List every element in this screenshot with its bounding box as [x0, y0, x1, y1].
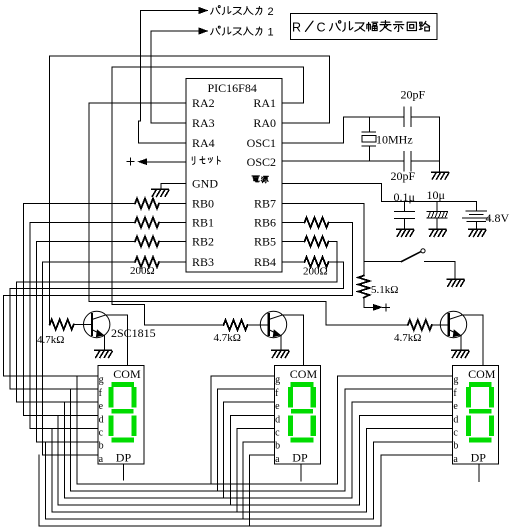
wire RA4 pin — [139, 142, 187, 144]
svg-text:DP: DP — [292, 451, 308, 465]
ground at GND pin — [152, 189, 169, 196]
resistor R4 200ohm RB3 — [135, 257, 159, 267]
svg-text:RB0: RB0 — [192, 197, 214, 211]
arrow pulse input 2 — [199, 7, 209, 14]
display DS2 7-segment — [274, 365, 320, 464]
svg-text:4.7kΩ: 4.7kΩ — [394, 332, 421, 344]
wire RA2 pin to left — [89, 102, 186, 104]
svg-text:RB7: RB7 — [254, 197, 276, 211]
wire RB3 vertical down to display pin — [42, 262, 44, 455]
wire 5.1k to plus marker — [364, 298, 374, 308]
crystal X1 10MHz — [369, 117, 371, 132]
wire band3 RB6 to display1 pin g — [4, 296, 353, 376]
title box R/C pulse width display circuit — [291, 14, 438, 40]
svg-text:GND: GND — [192, 177, 218, 191]
svg-text:200Ω: 200Ω — [130, 265, 155, 277]
svg-text:a: a — [453, 454, 458, 465]
wire bus6 to display3 pin b — [374, 442, 453, 519]
switch SW1 blade — [402, 252, 421, 262]
wire bus3 to display2 pin e — [224, 402, 275, 498]
wire RB7 to 5.1k and switch — [282, 204, 364, 276]
svg-text:DP: DP — [116, 451, 132, 465]
svg-text:4.7kΩ: 4.7kΩ — [37, 334, 64, 346]
wire RB1 resistor to bus vertical — [30, 222, 135, 224]
arrow to reset plus — [374, 305, 382, 310]
wire switch right contact to ground — [425, 262, 456, 279]
resistor R7 200ohm RB4 — [305, 257, 329, 267]
wire power pin to rail — [282, 184, 381, 202]
svg-text:c: c — [99, 428, 104, 439]
wire RB4 pin to resistor — [282, 261, 305, 263]
svg-text:OSC2: OSC2 — [247, 155, 276, 169]
ground at oscillator — [432, 172, 449, 179]
wire RB1 vertical down to display pin — [29, 223, 31, 429]
wire bus1 to display2 pin g — [211, 376, 274, 484]
wire top rail left of cap — [344, 116, 405, 118]
wire RB5 to band1 — [329, 242, 337, 283]
svg-text:a: a — [99, 454, 104, 465]
svg-text:10MHz: 10MHz — [376, 133, 413, 147]
capacitor C4 10u electrolytic — [436, 202, 438, 212]
svg-text:g: g — [275, 375, 280, 386]
wire bus line 6 — [46, 518, 374, 520]
wire RB2 resistor to bus vertical — [36, 241, 135, 243]
wire display1 pin d drop to bus4 — [57, 415, 59, 505]
wire bus4 to display3 pin d — [359, 415, 452, 505]
wire ground leg right — [439, 117, 441, 172]
reset plus marker left — [127, 158, 134, 165]
capacitor C3 0.1u — [404, 202, 406, 212]
svg-text:c: c — [453, 428, 458, 439]
resistor R6 200ohm RB5 — [305, 237, 329, 247]
7-segment digit display3 — [469, 382, 492, 387]
wire DP3 stub — [478, 464, 480, 481]
wire RA0 loop to Q1 base resistor — [50, 56, 330, 324]
wire RB6 pin to resistor — [282, 222, 305, 224]
7-segment digit display1 — [111, 382, 134, 387]
wire Q2 base — [248, 324, 269, 326]
capacitor C1 20pF top — [403, 107, 405, 127]
wire display1 pin a — [43, 454, 98, 456]
wire display1 pin d — [24, 414, 98, 416]
wire pulse-input-1 horizontal — [151, 30, 200, 32]
wire Q3 base — [432, 324, 449, 326]
wire RB1 pin to resistor — [159, 222, 186, 224]
wire bus2 to display3 pin f — [345, 389, 453, 491]
wire bus3 to display3 pin e — [352, 402, 453, 498]
svg-text:g: g — [99, 375, 104, 386]
display DS1 7-segment — [98, 365, 144, 464]
wire RA2 to Q3 base resistor — [89, 103, 408, 325]
svg-text:d: d — [275, 414, 280, 425]
svg-text:200Ω: 200Ω — [303, 266, 328, 278]
svg-text:d: d — [453, 414, 458, 425]
svg-text:PIC16F84: PIC16F84 — [208, 81, 257, 95]
wire RB3 resistor to bus vertical — [43, 261, 135, 263]
svg-text:RA4: RA4 — [192, 136, 215, 150]
svg-text:g: g — [453, 375, 458, 386]
resistor R2 200ohm RB1 — [135, 218, 159, 228]
wire OSC2 rail left of cap — [282, 160, 404, 162]
wire reset pin — [147, 161, 187, 163]
wire bus4 to display2 pin d — [230, 415, 274, 505]
wire RA1 to loop — [282, 102, 304, 104]
wire bus line 7 — [39, 525, 381, 527]
svg-text:e: e — [99, 401, 104, 412]
wire RB6 to band3 — [329, 223, 353, 296]
wire RB4 to band2 — [329, 262, 344, 289]
svg-text:COM: COM — [468, 367, 496, 381]
ground at battery — [469, 229, 486, 236]
resistor R10 4.7kohm Q2 — [224, 320, 248, 330]
wire RB5 pin to resistor — [282, 241, 305, 243]
svg-text:2: 2 — [268, 6, 274, 18]
svg-text:b: b — [275, 441, 280, 452]
svg-text:d: d — [99, 414, 104, 425]
wire RA1 loop to Q2 base resistor — [112, 67, 304, 325]
ground at Q1 emitter — [95, 350, 112, 357]
resistor R5 200ohm RB6 — [305, 218, 329, 228]
arrow pulse input 1 — [199, 27, 209, 34]
resistor R3 200ohm RB2 — [135, 237, 159, 247]
wire Q1 base — [74, 324, 92, 326]
7-segment digit display2 — [291, 382, 314, 387]
svg-text:e: e — [453, 401, 458, 412]
wire display1 pin f drop to bus2 — [70, 389, 72, 491]
wire top rail right of cap — [411, 116, 440, 118]
ground at C3 — [397, 229, 414, 236]
display DS3 7-segment — [453, 365, 499, 464]
resistor R1 200ohm RB0 — [135, 199, 159, 209]
wire display1 pin e drop to bus3 — [63, 402, 65, 498]
svg-text:RB2: RB2 — [192, 235, 214, 249]
svg-text:1: 1 — [268, 27, 274, 39]
svg-text:4.7kΩ: 4.7kΩ — [214, 332, 241, 344]
transistor Q3 2SC1815 — [440, 311, 466, 337]
svg-text:20pF: 20pF — [401, 88, 426, 102]
wire band2 RB4 to display1 pin f — [10, 289, 343, 389]
wire display1 pin b drop to bus6 — [45, 442, 47, 519]
wire bus2 to display2 pin f — [217, 389, 274, 491]
wire pulse-input-2 horizontal — [141, 10, 201, 12]
svg-text:RB4: RB4 — [254, 255, 276, 269]
wire DP2 stub — [300, 464, 302, 481]
IC U1 PIC16F84 body — [186, 79, 282, 273]
svg-text:b: b — [453, 441, 458, 452]
pin label power (kanji) — [252, 176, 268, 183]
svg-text:5.1kΩ: 5.1kΩ — [371, 284, 398, 296]
plus marker right — [383, 304, 390, 311]
wire RA0 to loop — [282, 122, 330, 124]
svg-text:e: e — [275, 401, 280, 412]
wire display1 pin c — [30, 428, 98, 430]
wire bus7 to display3 pin a — [381, 455, 453, 526]
svg-text:RB5: RB5 — [254, 235, 276, 249]
wire DP1 stub — [123, 464, 125, 480]
battery BT1 4.8V — [476, 202, 478, 211]
wire display1 pin a drop to bus7 — [38, 455, 40, 526]
wire bus5 to display2 pin c — [237, 429, 274, 513]
wire bus line 3 — [64, 497, 352, 499]
wire display1 pin b — [36, 441, 98, 443]
svg-text:DP: DP — [471, 451, 487, 465]
wire RB0 vertical down to display pin — [23, 204, 25, 416]
svg-text:RA1: RA1 — [253, 96, 276, 110]
transistor Q2 2SC1815 — [260, 311, 286, 337]
wire pulse-input-2 vertical to RA4 — [139, 11, 141, 144]
wire switch left contact — [364, 261, 402, 263]
wire OSC2 rail right of cap — [411, 160, 440, 162]
svg-text:2SC1815: 2SC1815 — [111, 326, 156, 340]
wire bus6 to display2 pin b — [243, 442, 274, 519]
svg-text:c: c — [275, 428, 280, 439]
svg-text:b: b — [99, 441, 104, 452]
wire display1 pin g drop to bus1 — [76, 376, 78, 484]
svg-text:RA2: RA2 — [192, 96, 215, 110]
ground at Q3 emitter — [452, 350, 469, 357]
ground at switch — [447, 279, 464, 286]
svg-text:RB3: RB3 — [192, 255, 214, 269]
wire bus1 to display3 pin g — [338, 376, 453, 484]
switch SW1 contact circle — [421, 249, 425, 253]
resistor R8 5.1kohm — [358, 276, 369, 298]
wire band1 RB5 to display1 pin e — [17, 282, 337, 402]
wire GND pin — [161, 184, 186, 189]
svg-text:RB6: RB6 — [254, 216, 276, 230]
wire bus line 4 — [58, 504, 359, 506]
resistor R11 4.7kohm Q3 — [408, 320, 432, 330]
wire RB0 pin to resistor — [159, 203, 186, 205]
svg-text:RA0: RA0 — [253, 116, 276, 130]
svg-text:C: C — [317, 21, 326, 35]
ground at Q2 emitter — [272, 350, 289, 357]
svg-text:COM: COM — [290, 367, 318, 381]
svg-text:4.8V: 4.8V — [486, 211, 510, 225]
wire display1 pin c drop to bus5 — [51, 429, 53, 513]
svg-text:a: a — [275, 454, 280, 465]
wire RB2 vertical down to display pin — [35, 242, 37, 442]
wire bus line 2 — [71, 490, 345, 492]
wire bus line 5 — [52, 511, 367, 513]
wire bus line 1 — [77, 483, 338, 485]
svg-text:COM: COM — [113, 367, 141, 381]
wire RB3 pin to resistor — [159, 261, 186, 263]
svg-text:0.1μ: 0.1μ — [394, 190, 415, 204]
resistor R9 4.7kohm Q1 — [50, 320, 74, 330]
capacitor C2 20pF bottom — [403, 152, 405, 172]
svg-text:10μ: 10μ — [427, 188, 445, 202]
transistor Q1 2SC1815 — [84, 311, 110, 337]
wire bus7 to display2 pin a — [250, 455, 275, 526]
svg-text:RB1: RB1 — [192, 216, 214, 230]
label pulse-input-2 (katakana) — [211, 6, 221, 14]
svg-text:OSC1: OSC1 — [247, 136, 276, 150]
wire OSC1 — [282, 117, 344, 143]
wire RB0 resistor to bus vertical — [24, 203, 136, 205]
pin label reset (katakana) — [192, 156, 220, 164]
svg-text:20pF: 20pF — [391, 169, 416, 183]
svg-text:RA3: RA3 — [192, 116, 215, 130]
wire pulse-input-1 vertical to RA3 — [150, 31, 152, 123]
wire power rail — [381, 201, 476, 203]
label pulse-input-1 (katakana) — [211, 26, 221, 34]
svg-text:R: R — [292, 21, 301, 35]
ground at C4 — [429, 229, 446, 236]
wire RB2 pin to resistor — [159, 241, 186, 243]
wire RA3 pin — [151, 122, 186, 124]
wire bus5 to display3 pin c — [367, 429, 453, 513]
arrow at reset pin — [139, 159, 147, 164]
